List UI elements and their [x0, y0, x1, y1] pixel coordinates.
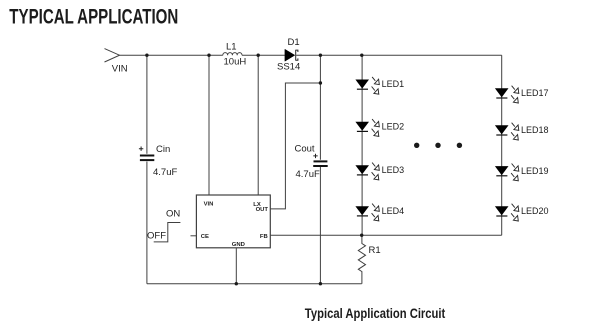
LED D-LED19 [495, 164, 519, 181]
svg-text:4.7uF: 4.7uF [296, 169, 320, 180]
VIN input port chevron [105, 49, 120, 62]
svg-text:LED1: LED1 [382, 79, 405, 89]
svg-text:4.7uF: 4.7uF [153, 167, 177, 178]
svg-text:R1: R1 [369, 245, 381, 256]
diode D1 symbol [285, 49, 298, 61]
svg-text:LED4: LED4 [382, 206, 405, 216]
node LX junction [257, 54, 260, 57]
node VIN pin junction [207, 54, 210, 57]
svg-text:LED20: LED20 [521, 206, 549, 216]
wire D1 cathode to right corner [296, 54, 502, 56]
node OUT branch junction [319, 81, 322, 84]
LED D-LED4 [355, 204, 379, 221]
svg-text:VIN: VIN [112, 64, 128, 75]
LED D-LED3 [355, 163, 379, 180]
wire L1 to D1 [242, 54, 285, 56]
switch waveform ON/OFF step [154, 223, 181, 242]
svg-text:LED19: LED19 [521, 166, 549, 176]
capacitor Cout [313, 154, 328, 166]
node Cout rail junction [319, 282, 322, 285]
node FB/R1 junction [360, 234, 363, 237]
capacitor Cin [139, 147, 154, 161]
svg-text:VIN: VIN [204, 202, 214, 208]
svg-text:L1: L1 [226, 42, 237, 53]
LED D-LED17 [495, 86, 519, 103]
wire Cout branch vertical [319, 55, 321, 284]
LED D-LED1 [355, 77, 379, 94]
svg-text:LED3: LED3 [382, 165, 405, 175]
wire left LED string vertical [361, 55, 363, 235]
svg-text:GND: GND [232, 242, 245, 248]
node VIN-Cin junction [145, 54, 148, 57]
node Cout top junction [319, 54, 322, 57]
wire OUT branch: junction to pin [270, 83, 320, 209]
svg-text:CE: CE [201, 234, 209, 240]
svg-text:TYPICAL APPLICATION: TYPICAL APPLICATION [9, 5, 178, 29]
svg-text:D1: D1 [288, 37, 300, 48]
svg-text:LED18: LED18 [521, 125, 549, 135]
op-amp U1 : IC box [196, 195, 270, 248]
wire right rail down to LED17 string [501, 55, 503, 235]
svg-text:FB: FB [260, 234, 268, 240]
svg-text:ON: ON [166, 209, 180, 220]
svg-text:LED2: LED2 [382, 121, 405, 131]
svg-text:Cin: Cin [156, 144, 170, 155]
svg-text:SS14: SS14 [277, 62, 300, 73]
node GND rail junction [235, 282, 238, 285]
svg-text:OUT: OUT [256, 207, 269, 213]
LED D-LED18 [495, 123, 519, 140]
svg-text:Cout: Cout [295, 144, 315, 155]
resistor R1 [358, 235, 365, 284]
node LED1 string junction [360, 54, 363, 57]
svg-text:10uH: 10uH [224, 56, 247, 67]
wire CE pin stub [191, 235, 197, 237]
wire LX pin vertical [257, 55, 259, 195]
LED D-LED20 [495, 204, 519, 221]
svg-text:Typical Application Circuit: Typical Application Circuit [305, 305, 446, 321]
svg-text:LED17: LED17 [521, 88, 549, 98]
wire FB line to LED strings bottom [270, 234, 501, 236]
node bottom rail [147, 283, 362, 285]
wire top rail VIN to L1 [120, 54, 223, 56]
ellipsis dots between LED strings [414, 143, 462, 148]
LED D-LED2 [355, 119, 379, 136]
inductor L1 [223, 53, 242, 56]
wire Cin branch vertical [146, 55, 148, 284]
wire GND pin vertical [235, 248, 237, 284]
svg-text:OFF: OFF [147, 231, 166, 242]
wire VIN pin vertical [208, 55, 210, 195]
